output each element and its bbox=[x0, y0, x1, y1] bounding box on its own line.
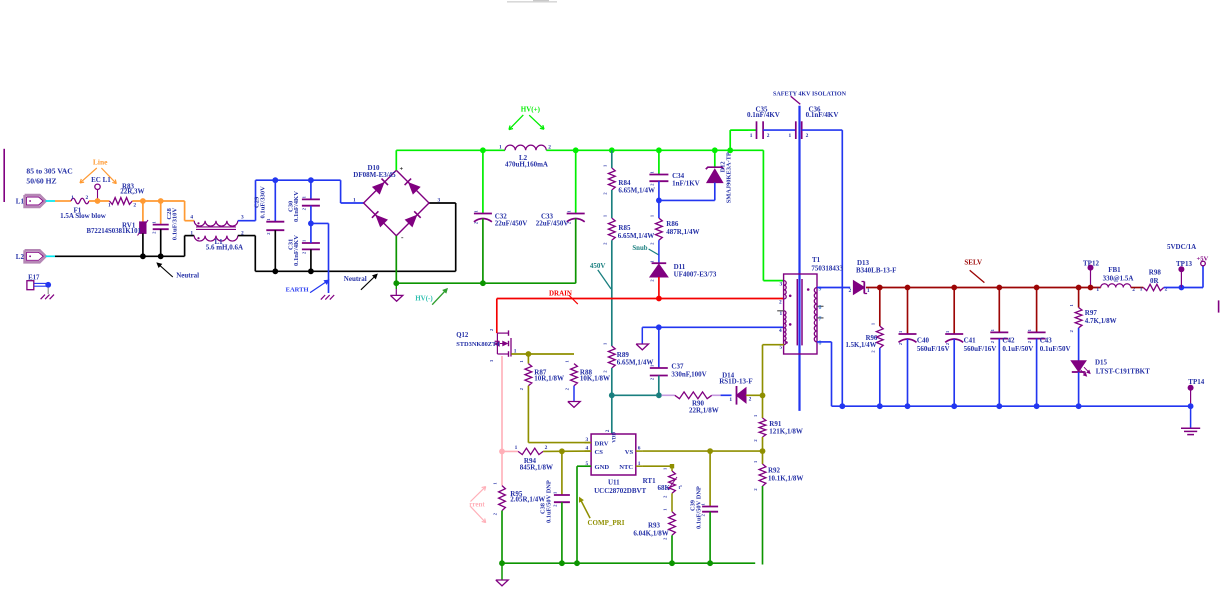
connector L1 bbox=[25, 195, 46, 207]
svg-text:0.1uF/50V: 0.1uF/50V bbox=[1040, 345, 1071, 353]
svg-text:1nF/1KV: 1nF/1KV bbox=[672, 179, 700, 187]
svg-text:EC L1: EC L1 bbox=[91, 176, 111, 184]
svg-text:0.1nF/4KV: 0.1nF/4KV bbox=[806, 111, 839, 119]
svg-text:2: 2 bbox=[302, 252, 307, 254]
svg-text:330nF,100V: 330nF,100V bbox=[671, 370, 706, 378]
svg-text:LTST-C191TBKT: LTST-C191TBKT bbox=[1096, 368, 1150, 376]
resistor R95 bbox=[501, 451, 503, 485]
ground secondary earth bbox=[1181, 427, 1200, 429]
junction aux node bbox=[760, 393, 766, 399]
svg-text:1: 1 bbox=[870, 323, 875, 325]
ground HV- triangle bbox=[390, 295, 402, 301]
resistor R98 bbox=[1143, 284, 1163, 290]
wire secondary gnd rail bbox=[832, 405, 1191, 407]
junction C38 top bbox=[559, 448, 565, 454]
junction C34 top bbox=[656, 147, 662, 153]
ground E17 chassis bbox=[41, 295, 45, 300]
svg-text:2: 2 bbox=[749, 397, 752, 403]
wire teal VDD drop bbox=[611, 395, 613, 434]
svg-text:U11: U11 bbox=[608, 478, 620, 486]
junction teal C37 bottom bbox=[656, 392, 662, 398]
svg-text:1: 1 bbox=[729, 397, 732, 403]
wire RV1 top bbox=[142, 201, 144, 222]
diode D14 bbox=[736, 386, 738, 405]
svg-text:2: 2 bbox=[545, 445, 548, 451]
svg-text:1: 1 bbox=[108, 203, 111, 209]
sheet border left segment bbox=[3, 149, 5, 202]
capacitor C42 bbox=[998, 288, 1000, 333]
junction TP12 bbox=[1088, 285, 1094, 291]
svg-text:2: 2 bbox=[302, 208, 307, 210]
wire bridge plus up bbox=[395, 150, 397, 170]
ground HV- stem bbox=[395, 283, 397, 289]
junction C29 bottom bbox=[272, 268, 278, 274]
resistor R87 bbox=[527, 354, 529, 364]
wire aux blue rail bbox=[642, 326, 784, 328]
svg-text:2: 2 bbox=[553, 505, 558, 507]
svg-text:t°: t° bbox=[679, 486, 683, 491]
svg-text:1: 1 bbox=[493, 482, 498, 484]
svg-text:2.05R,1/4W: 2.05R,1/4W bbox=[510, 496, 545, 504]
wire RV1 bottom bbox=[142, 233, 144, 256]
svg-text:Neutral: Neutral bbox=[344, 275, 367, 283]
power port +5V bbox=[1201, 261, 1206, 266]
wire primary gnd rail bbox=[502, 562, 755, 564]
svg-text:1: 1 bbox=[151, 221, 156, 223]
svg-text:1: 1 bbox=[602, 343, 607, 345]
svg-text:TP13: TP13 bbox=[1176, 260, 1192, 268]
wire blue top rail bbox=[256, 179, 341, 181]
capacitor C38 bbox=[561, 451, 563, 495]
svg-text:22uF/450V: 22uF/450V bbox=[536, 220, 569, 228]
wire FB1 to R98 bbox=[1131, 287, 1144, 289]
svg-text:85 to 305 VAC: 85 to 305 VAC bbox=[26, 167, 72, 176]
svg-text:0.1uF/310V: 0.1uF/310V bbox=[172, 208, 179, 241]
IC U11 pin stubs bbox=[585, 442, 592, 444]
wire C35 branch up bbox=[729, 130, 731, 150]
wire neutral right rail bbox=[255, 270, 455, 272]
svg-text:0R: 0R bbox=[1150, 277, 1160, 285]
junction HV- at bridge bbox=[393, 280, 399, 286]
junction R96 bottom bbox=[877, 403, 883, 409]
svg-text:SELV: SELV bbox=[964, 259, 982, 267]
faint gray mark top bbox=[507, 1, 557, 3]
svg-text:R86: R86 bbox=[666, 220, 679, 228]
junction TP13 bbox=[1179, 285, 1185, 291]
svg-text:2: 2 bbox=[650, 279, 655, 281]
svg-text:1: 1 bbox=[789, 133, 792, 139]
wire neutral up to choke pin1 bbox=[184, 236, 186, 257]
svg-text:1: 1 bbox=[753, 461, 758, 463]
svg-text:EARTH: EARTH bbox=[286, 287, 309, 294]
capacitor C34 bbox=[658, 150, 660, 174]
svg-text:1: 1 bbox=[1140, 287, 1143, 293]
svg-text:C41: C41 bbox=[964, 337, 977, 345]
svg-text:VDD: VDD bbox=[612, 432, 617, 443]
svg-text:1: 1 bbox=[553, 492, 558, 494]
svg-text:RT1: RT1 bbox=[643, 477, 656, 485]
junction VS divider bbox=[760, 448, 766, 454]
wire neutral left bbox=[55, 255, 185, 257]
svg-text:5VDC/1A: 5VDC/1A bbox=[1167, 243, 1196, 251]
svg-text:2: 2 bbox=[779, 299, 782, 305]
wire D11 to drain bbox=[658, 277, 660, 299]
svg-text:68K: 68K bbox=[658, 484, 671, 492]
wire D14 to divider bbox=[746, 394, 763, 396]
svg-text:Neutral: Neutral bbox=[176, 272, 199, 280]
wire R91 to VS bbox=[762, 437, 764, 451]
junction C43 top bbox=[1034, 285, 1040, 291]
svg-text:0.1uF/50V DNP: 0.1uF/50V DNP bbox=[546, 480, 553, 523]
svg-text:Q12: Q12 bbox=[456, 332, 469, 339]
svg-text:2: 2 bbox=[898, 343, 903, 345]
junction gate node bbox=[526, 351, 532, 357]
transformer secondary winding bbox=[814, 288, 817, 342]
resistor R96 bbox=[879, 288, 881, 327]
svg-text:1: 1 bbox=[780, 311, 783, 317]
wire C28 top bbox=[160, 201, 162, 225]
svg-text:0.1nF/4KV: 0.1nF/4KV bbox=[293, 191, 300, 222]
junction C42 top bbox=[996, 285, 1002, 291]
svg-text:2: 2 bbox=[565, 388, 570, 390]
junction C42 bottom bbox=[996, 403, 1002, 409]
svg-text:1: 1 bbox=[353, 198, 356, 204]
svg-text:1: 1 bbox=[602, 215, 607, 217]
IC U11 box bbox=[591, 434, 636, 475]
svg-text:1: 1 bbox=[302, 240, 307, 242]
capacitor C33 bbox=[575, 150, 577, 213]
junction C31 bottom bbox=[308, 268, 314, 274]
svg-text:3: 3 bbox=[438, 198, 441, 204]
svg-text:2: 2 bbox=[663, 538, 668, 540]
LED D15 bbox=[1071, 361, 1085, 372]
wire bridge minus down bbox=[395, 236, 397, 284]
wire orange line bus bbox=[132, 200, 184, 202]
choke L1 core bbox=[196, 226, 236, 228]
svg-text:6: 6 bbox=[638, 446, 641, 452]
wire C28 bottom bbox=[160, 229, 162, 256]
isolation barrier line bbox=[798, 106, 800, 411]
wire choke pin2 black bbox=[238, 235, 256, 237]
capacitor C41 bbox=[953, 288, 955, 335]
svg-text:+: + bbox=[400, 166, 404, 173]
bridge D10 diode lower-left bbox=[376, 216, 387, 227]
choke L1 bottom winding bbox=[194, 236, 238, 241]
svg-text:0.1uF/50V DNP: 0.1uF/50V DNP bbox=[695, 486, 702, 529]
junction rail left bbox=[499, 560, 505, 566]
bridge D10 diode upper-right bbox=[409, 183, 420, 194]
svg-text:1: 1 bbox=[1027, 329, 1032, 331]
capacitor C43 bbox=[1036, 288, 1038, 333]
wire output blue bbox=[1164, 287, 1203, 289]
junction clamp node bbox=[656, 198, 662, 204]
junction GND rail bbox=[574, 560, 580, 566]
svg-text:HV(+): HV(+) bbox=[521, 105, 541, 113]
svg-text:3: 3 bbox=[780, 281, 783, 287]
wire gate to R88 bbox=[528, 353, 574, 355]
wire earth drop bbox=[311, 222, 329, 224]
inductor L2 bbox=[505, 145, 546, 150]
junction C32 top bbox=[480, 147, 486, 153]
svg-text:450V: 450V bbox=[590, 262, 606, 270]
transformer core bbox=[796, 279, 798, 345]
wire RT1 to R93 bbox=[671, 493, 673, 511]
wire NTC to RT1 bbox=[642, 465, 672, 467]
svg-text:1: 1 bbox=[474, 210, 479, 212]
svg-text:2: 2 bbox=[1027, 341, 1032, 343]
resistor R91 bbox=[762, 395, 764, 418]
wire R92 to gnd bbox=[762, 486, 764, 565]
capacitor C35 bbox=[748, 129, 757, 131]
wire blue to bridge pin1 bbox=[340, 180, 342, 203]
svg-text:1: 1 bbox=[649, 365, 654, 367]
wire HV+ to transformer pin3 bbox=[762, 150, 764, 280]
wire teal R84-R85 bbox=[611, 190, 613, 218]
svg-text:2: 2 bbox=[602, 243, 607, 245]
ground primary stem bbox=[501, 563, 503, 580]
svg-text:470uH,160mA: 470uH,160mA bbox=[505, 160, 548, 168]
junction C35 branch bbox=[727, 147, 733, 153]
junction drain node bbox=[656, 296, 662, 302]
svg-text:1: 1 bbox=[638, 461, 641, 467]
wire secondary pin9 bbox=[817, 287, 850, 289]
wire drain rail bbox=[497, 298, 784, 300]
diode D13 bbox=[854, 281, 865, 294]
svg-text:2: 2 bbox=[489, 329, 494, 331]
svg-text:1: 1 bbox=[566, 210, 571, 212]
svg-text:L1: L1 bbox=[16, 198, 25, 206]
svg-text:2: 2 bbox=[649, 378, 654, 380]
wire C36 to secondary gnd bbox=[802, 129, 843, 131]
svg-text:DRAIN: DRAIN bbox=[549, 289, 572, 297]
connector L2 bbox=[25, 250, 46, 262]
svg-text:2: 2 bbox=[151, 232, 156, 234]
junction teal VDD node bbox=[609, 392, 615, 398]
svg-text:2: 2 bbox=[133, 203, 136, 209]
resistor R92 bbox=[762, 451, 764, 464]
capacitor C40 bbox=[907, 288, 909, 335]
svg-text:10.1K,1/8W: 10.1K,1/8W bbox=[768, 474, 803, 482]
svg-text:UF4007-E3/73: UF4007-E3/73 bbox=[674, 271, 717, 279]
svg-text:Snub: Snub bbox=[632, 245, 647, 252]
svg-text:C37: C37 bbox=[671, 363, 684, 371]
svg-text:750318433: 750318433 bbox=[811, 265, 843, 273]
wire teal to C37 bbox=[612, 394, 659, 396]
svg-text:1: 1 bbox=[565, 360, 570, 362]
capacitor C29 bbox=[274, 180, 276, 222]
thermistor RT1 bbox=[671, 466, 673, 471]
junction C37 top bbox=[656, 324, 662, 330]
svg-text:RS1D-13-F: RS1D-13-F bbox=[719, 378, 752, 386]
junction C40 top bbox=[905, 285, 911, 291]
wire R94 to CS bbox=[543, 450, 591, 452]
wire drain down to Q12 bbox=[496, 299, 498, 334]
svg-text:+5V: +5V bbox=[1197, 255, 1209, 262]
svg-text:1: 1 bbox=[990, 329, 995, 331]
wire secondary pin8 bbox=[817, 341, 832, 343]
svg-text:Line: Line bbox=[93, 158, 108, 167]
svg-text:C40: C40 bbox=[917, 337, 930, 345]
svg-text:1.5K,1/4W: 1.5K,1/4W bbox=[846, 342, 877, 349]
svg-text:SAFETY 4KV ISOLATION: SAFETY 4KV ISOLATION bbox=[773, 91, 847, 97]
svg-text:NTC: NTC bbox=[619, 464, 633, 471]
svg-text:2: 2 bbox=[602, 370, 607, 372]
svg-text:121K,1/8W: 121K,1/8W bbox=[769, 428, 803, 436]
varistor RV1 bbox=[140, 222, 146, 234]
ferrite bead FB1 bbox=[1101, 284, 1131, 288]
svg-text:D11: D11 bbox=[674, 263, 686, 271]
svg-text:10K,1/8W: 10K,1/8W bbox=[580, 375, 610, 383]
svg-text:R85: R85 bbox=[618, 224, 631, 232]
svg-text:2: 2 bbox=[1069, 330, 1074, 332]
svg-text:C43: C43 bbox=[1040, 337, 1053, 345]
fuse F1 bbox=[71, 198, 89, 204]
svg-text:R98: R98 bbox=[1149, 269, 1162, 277]
junction C32 bottom bbox=[480, 280, 486, 286]
svg-text:2: 2 bbox=[806, 133, 809, 139]
junction C39 bottom bbox=[707, 560, 713, 566]
wire clamp to D12 bbox=[659, 199, 715, 201]
svg-text:HV(-): HV(-) bbox=[415, 294, 433, 302]
ground EARTH chassis bbox=[321, 295, 325, 300]
junction D15 bottom bbox=[1076, 403, 1082, 409]
junction C41 top bbox=[951, 285, 957, 291]
svg-text:2: 2 bbox=[602, 192, 607, 194]
svg-text:2: 2 bbox=[493, 513, 498, 515]
wire R86 to D11 bbox=[658, 240, 660, 264]
junction C38 bottom bbox=[559, 560, 565, 566]
junction C43 bottom bbox=[1034, 403, 1040, 409]
svg-text:845R,1/8W: 845R,1/8W bbox=[520, 463, 553, 471]
svg-text:330@1.5A: 330@1.5A bbox=[1103, 275, 1134, 283]
svg-text:2: 2 bbox=[519, 388, 524, 390]
svg-text:7: 7 bbox=[819, 316, 822, 322]
wire pink to R94 bbox=[502, 450, 518, 452]
wire fuse to R83 bbox=[89, 200, 109, 202]
svg-text:1: 1 bbox=[753, 415, 758, 417]
wire teal R85 down bbox=[611, 240, 613, 346]
svg-text:1: 1 bbox=[71, 195, 74, 201]
junction TP14 bbox=[1188, 403, 1194, 409]
svg-text:5.6 mH,0.6A: 5.6 mH,0.6A bbox=[206, 243, 243, 251]
wire lavender R90 right bbox=[712, 394, 721, 396]
svg-text:4: 4 bbox=[779, 328, 782, 334]
svg-text:1: 1 bbox=[266, 218, 271, 220]
wire Q12 source pink bbox=[501, 356, 503, 451]
svg-text:1: 1 bbox=[1096, 287, 1099, 293]
svg-text:B340LB-13-F: B340LB-13-F bbox=[856, 267, 896, 275]
svg-text:COMP_PRI: COMP_PRI bbox=[588, 519, 625, 527]
capacitor C36 bbox=[795, 121, 797, 139]
svg-text:T1: T1 bbox=[812, 256, 821, 264]
wire R93 to rail bbox=[671, 535, 673, 563]
svg-text:VS: VS bbox=[625, 449, 634, 456]
svg-text:22R,3W: 22R,3W bbox=[120, 187, 144, 195]
svg-text:R93: R93 bbox=[648, 522, 661, 530]
svg-text:STD3NK80ZT4: STD3NK80ZT4 bbox=[456, 341, 500, 348]
svg-text:487R,1/4W: 487R,1/4W bbox=[666, 228, 699, 236]
svg-text:1: 1 bbox=[898, 331, 903, 333]
svg-text:D15: D15 bbox=[1095, 358, 1108, 366]
svg-text:C42: C42 bbox=[1002, 337, 1015, 345]
svg-text:1: 1 bbox=[190, 230, 193, 236]
sheet border right segment bbox=[1218, 300, 1220, 312]
resistor R90 bbox=[675, 392, 712, 399]
wire TP14 gnd stem bbox=[1190, 406, 1192, 428]
svg-text:6.04K,1/8W: 6.04K,1/8W bbox=[633, 529, 668, 537]
svg-text:0.1uF/50V: 0.1uF/50V bbox=[1002, 345, 1033, 353]
wire R97 to D15 bbox=[1078, 328, 1080, 361]
junction line-RV1 bbox=[140, 198, 146, 204]
ground C37 stem bbox=[641, 327, 643, 344]
svg-text:0.1nF/4KV: 0.1nF/4KV bbox=[747, 111, 780, 119]
transformer aux winding bbox=[784, 311, 786, 345]
svg-text:1: 1 bbox=[650, 171, 655, 173]
capacitor C30 bbox=[310, 180, 312, 199]
wire choke pin3 blue bbox=[238, 220, 256, 222]
svg-text:2: 2 bbox=[663, 496, 668, 498]
svg-text:2: 2 bbox=[990, 341, 995, 343]
svg-text:1: 1 bbox=[499, 145, 502, 151]
svg-text:1: 1 bbox=[663, 508, 668, 510]
resistor R94 bbox=[518, 448, 543, 454]
junction R97 top bbox=[1076, 285, 1082, 291]
wire VS line bbox=[642, 450, 762, 452]
transformer pin stubs bbox=[777, 310, 784, 312]
svg-text:1: 1 bbox=[663, 468, 668, 470]
svg-text:10R,1/8W: 10R,1/8W bbox=[534, 375, 564, 383]
capacitor C32 bbox=[482, 150, 484, 213]
svg-text:2: 2 bbox=[767, 133, 770, 139]
svg-text:UCC28702DBVT: UCC28702DBVT bbox=[594, 487, 646, 495]
wire R88 to gnd bbox=[573, 386, 575, 402]
svg-text:3: 3 bbox=[586, 437, 589, 443]
junction neutral-C28 bbox=[158, 253, 164, 259]
junction D12 top bbox=[712, 147, 718, 153]
junction R93 rail bbox=[669, 560, 675, 566]
resistor R83 bbox=[109, 198, 132, 205]
choke L1 top winding bbox=[194, 221, 238, 226]
svg-text:6: 6 bbox=[819, 305, 822, 311]
wire SELV rail bbox=[866, 287, 1101, 289]
junction Isense node bbox=[499, 449, 505, 455]
wire HV+ bus left bbox=[396, 149, 505, 151]
svg-text:1: 1 bbox=[1069, 304, 1074, 306]
svg-text:DRV: DRV bbox=[595, 440, 609, 447]
junction neutral-RV1 bbox=[140, 253, 146, 259]
svg-text:2: 2 bbox=[870, 350, 875, 352]
svg-text:6.65M,1/4W: 6.65M,1/4W bbox=[618, 232, 655, 240]
transistor Q12 bbox=[497, 332, 508, 334]
wire HV- bus bbox=[396, 282, 575, 284]
svg-text:2: 2 bbox=[849, 288, 852, 294]
wire lavender R90 left bbox=[662, 394, 675, 396]
wire Q12 gate bbox=[511, 353, 528, 355]
svg-text:SMAJ90KE3A-TP: SMAJ90KE3A-TP bbox=[726, 152, 733, 203]
wire orange down to choke pin4 bbox=[184, 201, 186, 221]
EC L1 terminal bbox=[95, 184, 100, 189]
bridge D10 diode lower-right bbox=[406, 216, 417, 227]
junction C41 bottom bbox=[951, 403, 957, 409]
svg-text:6.65M,1/4W: 6.65M,1/4W bbox=[618, 187, 655, 195]
svg-text:DF08M-E3/45: DF08M-E3/45 bbox=[353, 171, 396, 179]
wire aux pin5 olive bbox=[763, 344, 784, 346]
bridge rectifier D10 outline bbox=[364, 170, 429, 235]
svg-text:1: 1 bbox=[945, 331, 950, 333]
transformer T1 box bbox=[784, 274, 817, 354]
svg-text:1.5A Slow blow: 1.5A Slow blow bbox=[60, 212, 107, 220]
svg-text:2: 2 bbox=[945, 343, 950, 345]
